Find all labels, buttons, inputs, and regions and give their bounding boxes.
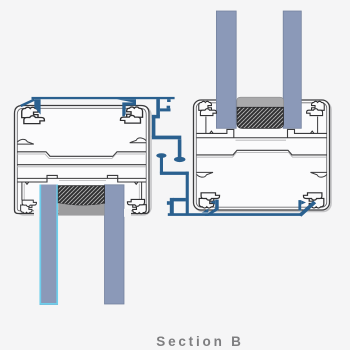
anchor left tri [202,209,209,213]
glass pane G3 edge [216,11,236,128]
bolt B2 shaft [160,157,163,174]
wall hook left [17,139,34,144]
rebate channel shadow [236,139,287,141]
open bottom erase left sliver [34,209,40,217]
pocket wall left [21,182,23,200]
glass pane G1 (left) [40,185,59,306]
boss BR (right profile) [303,193,323,208]
rebate channel [197,129,328,137]
boss BL [21,200,37,213]
open bottom erase right sliver [124,209,131,217]
boss TL (right profile) [199,101,217,115]
bracket stub arm [160,108,171,111]
boss BR [127,199,146,213]
bracket stub nub [167,106,171,109]
gasket notch left [210,131,214,133]
web dip line [17,152,146,157]
cap left wedge [34,99,40,114]
boss TR [120,107,142,123]
gasket notch right [134,182,138,184]
bracket step joint [152,115,160,119]
glass pane G2 (right) [105,185,125,304]
anchor left diag [205,207,220,216]
bracket vertical upper [156,99,160,116]
pocket wall right shadow [138,184,140,201]
open top erase [217,97,302,105]
anchor right tick [298,200,301,211]
foot arm [173,198,186,202]
link horizontal [160,172,189,175]
glass pane G1 core [42,185,56,303]
glass pane G4 (right) [283,11,301,128]
rebate channel [17,175,146,182]
pocket wall left shadow [23,184,25,201]
bolt B2 head [156,153,166,158]
profile outer wall [194,100,330,210]
cap mid wedge bar [122,106,125,117]
profile body shadow [16,107,151,215]
setting block gray [58,203,104,215]
glass pane G4 edge [283,11,301,128]
web bump inner line [197,153,326,158]
web lower line [17,164,146,166]
foot tick [167,201,170,205]
gasket hatch block (left profile) [58,186,104,206]
anchor right flag [301,200,306,204]
bolt B1 head [174,157,186,162]
gasket notch left [25,182,29,184]
foot nub [170,198,174,215]
profile body shadow [195,102,331,212]
boss BL (right profile) [199,193,219,208]
profile inner wall [196,103,326,207]
cap mid wedge triangle [117,99,136,103]
bracket vertical lower [152,115,156,137]
profile outer wall [15,106,150,214]
pocket wall left [205,117,207,134]
boss TL [22,107,45,123]
link vertical [186,172,189,216]
caption Section B [25,334,350,349]
web lower shadow [17,166,146,168]
glass pane G1 cyan edge [40,185,57,304]
wall hook right [311,172,328,177]
bolt B1 shaft [178,139,182,157]
rebate floor line [197,137,328,139]
pocket wall right [317,117,319,134]
base line [168,213,301,216]
boss TR (right profile) [307,101,325,115]
web dip inner line [17,154,145,158]
cap mid wedge step [122,102,136,105]
gasket notch right [310,131,314,133]
anchor left flag [210,200,215,204]
cap end nub [167,99,171,102]
bracket horizontal [152,136,181,140]
anchor right diag [298,201,316,217]
anchor left tick [215,200,219,210]
gray cap above hatch [237,97,284,107]
cap top line [32,97,175,99]
rebate channel shadow [59,180,106,182]
web bump line [197,150,328,155]
profile inner wall [17,108,146,211]
rebate floor line [17,177,146,179]
pocket wall right [141,182,143,200]
wall hook left [197,172,214,177]
wall hook right [130,138,147,143]
glass pane G2 edge [105,185,125,304]
glass pane G3 (left) [216,11,236,128]
cap diagonal [20,99,35,108]
gasket hatch block (right profile) [237,107,284,128]
